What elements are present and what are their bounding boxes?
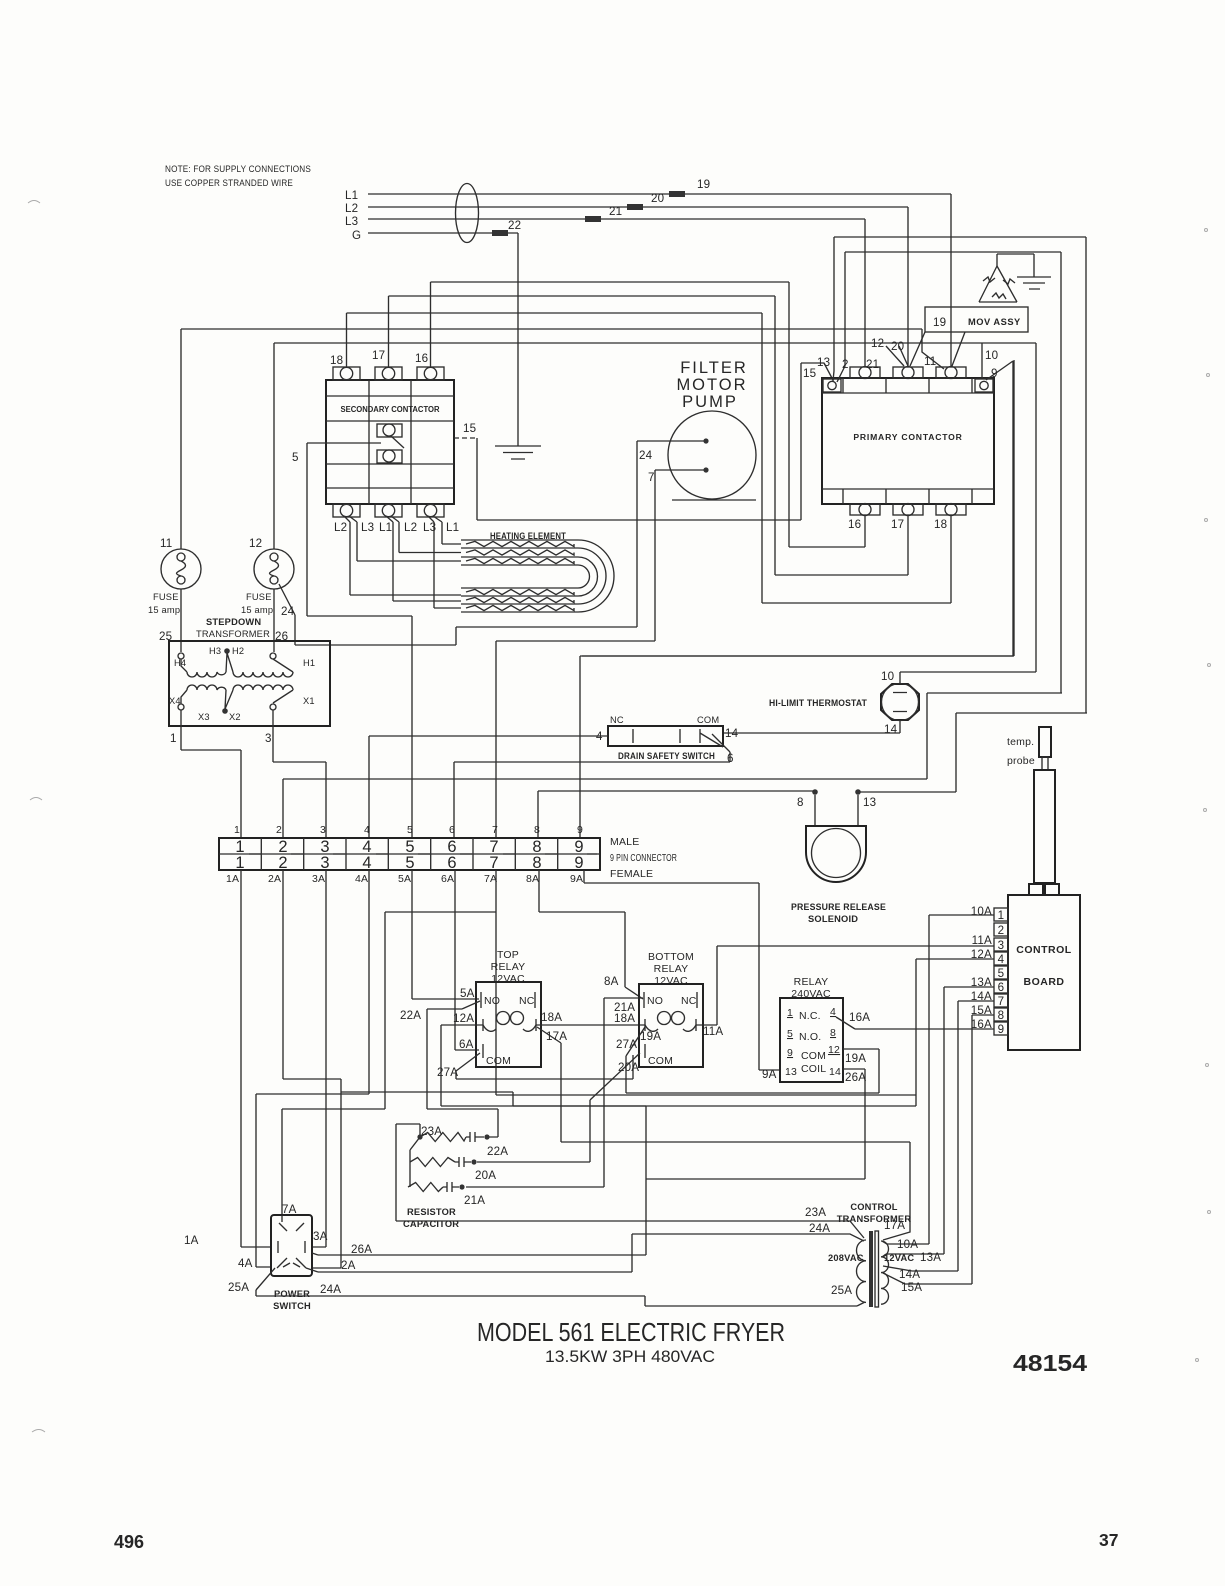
svg-text:24A: 24A (320, 1283, 341, 1296)
sc bottom terminal 1 (333, 504, 360, 517)
scan marks (28, 201, 1211, 1433)
wire 2A jog (513, 1106, 646, 1179)
terminal 16 of secondary contactor (415, 352, 444, 380)
svg-text:6: 6 (998, 981, 1005, 994)
svg-text:N.C.: N.C. (799, 1010, 821, 1022)
pc top terminal 19 (936, 367, 966, 379)
svg-text:19: 19 (933, 316, 946, 329)
svg-text:FEMALE: FEMALE (610, 868, 653, 880)
svg-text:G: G (352, 229, 361, 242)
svg-text:13: 13 (817, 356, 830, 369)
svg-text:MALE: MALE (610, 836, 639, 848)
wire sc t1 right lead to element (349, 516, 461, 561)
board pin 1 (994, 908, 1008, 922)
wire 17A (537, 1027, 910, 1240)
wire 27A top (437, 1053, 633, 1079)
svg-text:4: 4 (830, 1006, 836, 1018)
pc corner terminal left (823, 379, 841, 392)
svg-text:X2: X2 (229, 712, 241, 722)
svg-text:8: 8 (830, 1027, 836, 1039)
svg-text:20A: 20A (475, 1169, 496, 1182)
svg-text:22A: 22A (487, 1145, 508, 1158)
svg-text:10A: 10A (971, 905, 992, 918)
wire fuse 11 to transformer H4 (180, 329, 182, 652)
secondary contactor coil upper (377, 424, 404, 448)
svg-text:11A: 11A (972, 934, 992, 947)
svg-text:21: 21 (609, 205, 622, 218)
wire sc t2 right lead to element (391, 516, 461, 553)
svg-text:19A: 19A (845, 1052, 866, 1065)
svg-text:L1: L1 (345, 189, 358, 202)
svg-text:2: 2 (998, 924, 1005, 937)
wire pc bottom 17 to rail B (775, 515, 908, 575)
wire 7 from pump (496, 470, 704, 838)
wire 19A relay12 (626, 1049, 879, 1093)
wire thermostat 14 to drain com (723, 720, 900, 733)
wire 2 (837, 252, 1061, 693)
svg-text:19A: 19A (640, 1030, 661, 1043)
wire 21A (466, 998, 643, 1187)
svg-text:L3: L3 (345, 215, 358, 228)
svg-text:NOTE: FOR SUPPLY CONNECTIONS: NOTE: FOR SUPPLY CONNECTIONS (165, 164, 311, 174)
svg-text:HI-LIMIT THERMOSTAT: HI-LIMIT THERMOSTAT (769, 698, 867, 708)
svg-text:3A: 3A (313, 1230, 328, 1243)
wire sc t3 left lead to element (428, 516, 461, 608)
svg-text:10A: 10A (897, 1238, 918, 1251)
svg-text:7A: 7A (484, 873, 497, 885)
wire 14A (912, 1001, 994, 1271)
svg-text:4: 4 (364, 824, 370, 836)
wire 24A (318, 1234, 864, 1272)
svg-text:12A: 12A (453, 1012, 474, 1025)
svg-text:N.O.: N.O. (799, 1031, 821, 1043)
svg-text:1: 1 (170, 732, 177, 745)
heating element (461, 531, 614, 612)
splice 20 (627, 204, 643, 210)
svg-text:RESISTOR: RESISTOR (407, 1207, 456, 1217)
board pin 9 (994, 1022, 1008, 1036)
svg-text:14A: 14A (899, 1268, 920, 1281)
svg-text:21A: 21A (464, 1194, 485, 1207)
svg-text:NC: NC (681, 995, 697, 1007)
svg-text:11: 11 (924, 355, 936, 368)
svg-text:20: 20 (651, 192, 664, 205)
svg-text:L2: L2 (345, 202, 358, 215)
svg-text:27A: 27A (437, 1066, 458, 1079)
svg-text:L2: L2 (404, 521, 417, 534)
svg-text:9: 9 (991, 367, 998, 380)
svg-text:16A: 16A (849, 1011, 870, 1024)
pc top terminal 21 (850, 367, 880, 379)
wire 12A long (441, 959, 994, 1106)
mov assy (910, 254, 1051, 366)
wire 11A (696, 946, 994, 1038)
pc bottom terminal 18 (934, 504, 966, 532)
svg-text:5: 5 (407, 824, 413, 836)
svg-text:9: 9 (998, 1023, 1005, 1036)
wire sc t1 left lead to element (344, 516, 461, 595)
svg-text:COM: COM (486, 1055, 511, 1067)
cable bundle ellipse (456, 184, 479, 243)
pc corner terminal right (975, 379, 993, 392)
svg-text:1: 1 (787, 1007, 793, 1019)
wire 3A (312, 870, 326, 1247)
svg-text:3: 3 (320, 854, 329, 872)
svg-text:2: 2 (278, 854, 287, 872)
svg-text:DRAIN SAFETY SWITCH: DRAIN SAFETY SWITCH (618, 751, 715, 761)
svg-text:BOARD: BOARD (1024, 976, 1065, 988)
secondary contactor box (326, 380, 454, 504)
board pin 2 (994, 923, 1008, 937)
svg-text:6: 6 (449, 824, 455, 836)
svg-text:USE COPPER STRANDED WIRE: USE COPPER STRANDED WIRE (165, 178, 293, 188)
svg-text:4: 4 (998, 953, 1005, 966)
secondary contactor coil lower (377, 450, 402, 463)
wire 16A (836, 1011, 994, 1029)
wire 6A (455, 870, 479, 1050)
board pin 3 (994, 938, 1008, 952)
terminal 18 of secondary contactor (330, 354, 360, 380)
svg-text:TRANSFORMER: TRANSFORMER (196, 629, 270, 639)
top relay box (476, 949, 541, 1067)
svg-text:SOLENOID: SOLENOID (808, 914, 858, 924)
wire 1A (241, 870, 271, 1247)
svg-text:208VAC: 208VAC (828, 1253, 864, 1263)
svg-text:48154: 48154 (1013, 1350, 1087, 1376)
wire 4A (256, 870, 369, 1267)
svg-text:17: 17 (891, 518, 904, 531)
svg-text:3: 3 (265, 732, 272, 745)
svg-text:11: 11 (160, 537, 172, 550)
svg-text:6: 6 (447, 854, 456, 872)
svg-text:14: 14 (829, 1066, 841, 1078)
wire L3 to terminal 21 (368, 219, 865, 367)
svg-text:17A: 17A (884, 1219, 905, 1232)
svg-text:PUMP: PUMP (682, 393, 738, 411)
svg-text:24: 24 (639, 449, 653, 462)
svg-text:6A: 6A (459, 1038, 474, 1051)
filter motor pump (639, 359, 756, 500)
svg-text:5: 5 (787, 1028, 793, 1040)
svg-text:4: 4 (362, 854, 371, 872)
svg-text:L2: L2 (334, 521, 347, 534)
svg-text:L1: L1 (379, 521, 392, 534)
svg-text:26A: 26A (845, 1071, 866, 1084)
board pin 8 (994, 1008, 1008, 1022)
stepdown transformer (159, 617, 330, 745)
svg-text:STEPDOWN: STEPDOWN (206, 617, 261, 627)
svg-text:9: 9 (574, 854, 583, 872)
wire 11 from fuse 11 (181, 329, 944, 369)
svg-text:20A: 20A (618, 1061, 639, 1074)
wire 2A branch (341, 1092, 513, 1106)
board pin 7 (994, 994, 1008, 1008)
wire bus y296 to rail B (389, 296, 776, 575)
svg-text:8: 8 (534, 824, 540, 836)
svg-text:8A: 8A (526, 873, 539, 885)
control transformer (805, 1202, 941, 1307)
svg-text:16: 16 (848, 518, 861, 531)
svg-text:8: 8 (797, 796, 804, 809)
svg-text:1A: 1A (226, 873, 239, 885)
svg-text:H2: H2 (232, 646, 244, 656)
hi-limit thermostat (769, 670, 919, 736)
svg-text:PRESSURE RELEASE: PRESSURE RELEASE (791, 902, 886, 912)
svg-text:27A: 27A (616, 1038, 637, 1051)
svg-text:12A: 12A (971, 948, 992, 961)
control board (1008, 884, 1080, 1050)
svg-text:26A: 26A (351, 1243, 372, 1256)
board pin 4 (994, 952, 1008, 966)
svg-text:12VAC: 12VAC (491, 973, 525, 985)
wire 15A (905, 1015, 994, 1284)
svg-text:11A: 11A (703, 1025, 723, 1038)
svg-text:H3: H3 (209, 646, 221, 656)
svg-text:9: 9 (577, 824, 583, 836)
svg-text:SWITCH: SWITCH (273, 1301, 311, 1311)
svg-text:POWER: POWER (274, 1289, 310, 1299)
svg-text:12: 12 (249, 537, 262, 550)
svg-text:15: 15 (803, 367, 816, 380)
svg-text:13.5KW 3PH 480VAC: 13.5KW 3PH 480VAC (545, 1347, 715, 1366)
svg-text:7: 7 (492, 824, 498, 836)
wire solenoid 8 (538, 791, 813, 838)
svg-text:23A: 23A (805, 1206, 826, 1219)
svg-text:12VAC: 12VAC (654, 975, 688, 987)
svg-text:12: 12 (871, 337, 884, 350)
wire 12A to top relay coil (441, 1024, 483, 1026)
wire 4 drain nc to pin 4 (369, 736, 608, 838)
svg-text:19: 19 (697, 178, 710, 191)
svg-text:24: 24 (281, 605, 295, 618)
svg-text:22A: 22A (400, 1009, 421, 1022)
svg-text:18: 18 (934, 518, 947, 531)
svg-text:25A: 25A (228, 1281, 249, 1294)
svg-text:4A: 4A (355, 873, 368, 885)
svg-text:RELAY: RELAY (794, 976, 829, 988)
wire 19A diag (626, 1027, 661, 1093)
sc bottom terminal 3 (417, 504, 444, 517)
svg-text:1: 1 (234, 824, 240, 836)
svg-text:MOTOR: MOTOR (676, 376, 747, 394)
svg-text:CONTROL: CONTROL (1016, 944, 1071, 956)
svg-text:COIL: COIL (801, 1063, 826, 1075)
pc bottom terminal 16 (848, 504, 880, 532)
svg-text:13A: 13A (920, 1251, 941, 1264)
wire bus y313 to rail C (347, 313, 763, 603)
wire G (368, 233, 518, 446)
board pin 6 (994, 980, 1008, 994)
svg-text:15A: 15A (901, 1281, 922, 1294)
svg-text:6A: 6A (441, 873, 454, 885)
svg-text:CONTROL: CONTROL (850, 1202, 897, 1212)
board pin 5 (994, 966, 1008, 980)
svg-text:3A: 3A (312, 873, 325, 885)
wire 2A (283, 870, 341, 1268)
wire 5A (412, 870, 479, 999)
svg-text:18A: 18A (541, 1011, 562, 1024)
svg-text:4A: 4A (238, 1257, 253, 1270)
svg-text:8: 8 (532, 854, 541, 872)
sc bottom terminal 2 (375, 504, 402, 517)
wire 7A (282, 870, 916, 1215)
svg-text:15: 15 (463, 422, 476, 435)
svg-text:FILTER: FILTER (680, 359, 748, 377)
temp probe (1007, 727, 1055, 883)
svg-text:SECONDARY CONTACTOR: SECONDARY CONTACTOR (341, 404, 441, 414)
fuse 12 (241, 537, 294, 615)
svg-text:21: 21 (866, 358, 879, 371)
svg-text:7: 7 (648, 471, 655, 484)
wire 10 (900, 343, 1036, 684)
svg-text:17: 17 (372, 349, 385, 362)
wire transformer terminal 3 to pin 3 (273, 710, 326, 838)
svg-text:COM: COM (697, 715, 719, 725)
svg-text:20: 20 (891, 340, 904, 353)
svg-text:3: 3 (998, 939, 1005, 952)
svg-text:temp.: temp. (1007, 736, 1034, 748)
svg-text:L3: L3 (361, 521, 374, 534)
relay 240vac (780, 976, 843, 1082)
terminal 17 of secondary contactor (372, 349, 402, 380)
wire solenoid 13 (858, 713, 1087, 809)
wire 18A between relays (536, 1011, 645, 1025)
wire 22A (400, 1001, 498, 1137)
svg-text:1: 1 (235, 854, 244, 872)
wire 20A (477, 1053, 640, 1162)
svg-text:14: 14 (725, 727, 739, 740)
svg-text:5A: 5A (460, 987, 475, 1000)
wire 12 from fuse 12 (274, 343, 982, 366)
9 pin connector (219, 824, 677, 885)
svg-text:PRIMARY CONTACTOR: PRIMARY CONTACTOR (853, 432, 962, 442)
svg-text:COM: COM (801, 1050, 826, 1062)
wire transformer terminal 1 to pin 1 (181, 710, 241, 838)
svg-text:6: 6 (727, 752, 734, 765)
svg-text:10: 10 (985, 349, 998, 362)
svg-text:17A: 17A (546, 1030, 567, 1043)
wire 8A (539, 870, 643, 999)
svg-text:9 PIN CONNECTOR: 9 PIN CONNECTOR (610, 852, 677, 864)
svg-text:15 amp: 15 amp (241, 605, 273, 615)
svg-text:TOP: TOP (497, 949, 519, 961)
svg-text:25A: 25A (831, 1284, 852, 1297)
svg-text:5: 5 (405, 854, 414, 872)
svg-text:21A: 21A (614, 1001, 635, 1014)
svg-text:9: 9 (787, 1047, 793, 1059)
fuse 11 (148, 537, 201, 615)
wire 5 (292, 443, 412, 838)
splice 21 (585, 216, 601, 222)
splice 22 (492, 230, 508, 236)
svg-text:NC: NC (519, 995, 535, 1007)
svg-text:8A: 8A (604, 975, 619, 988)
wire 26A relay14 (318, 1069, 866, 1255)
svg-text:FUSE: FUSE (153, 592, 179, 602)
wire 13 (833, 237, 1086, 713)
svg-text:2A: 2A (268, 873, 281, 885)
pc top terminal 20 (893, 367, 923, 379)
svg-text:37: 37 (1099, 1530, 1118, 1550)
svg-text:12VAC: 12VAC (884, 1253, 914, 1263)
svg-text:2A: 2A (341, 1259, 356, 1272)
svg-text:BOTTOM: BOTTOM (648, 951, 694, 963)
svg-text:13: 13 (863, 796, 876, 809)
wire sc terminal 18 riser (346, 313, 348, 367)
wire sc terminal 17 riser (388, 296, 390, 367)
ground for G wire (495, 446, 541, 459)
svg-text:14: 14 (884, 723, 898, 736)
wire pin9 riser right (582, 360, 1014, 656)
svg-text:16: 16 (415, 352, 428, 365)
svg-text:24A: 24A (809, 1222, 830, 1235)
svg-text:L1: L1 (446, 521, 459, 534)
svg-text:496: 496 (114, 1532, 144, 1552)
svg-text:NO: NO (647, 995, 663, 1007)
svg-text:9A: 9A (570, 873, 583, 885)
svg-text:H1: H1 (303, 658, 315, 668)
wire 15 (454, 363, 833, 520)
pressure release solenoid (791, 789, 886, 924)
svg-text:probe: probe (1007, 755, 1035, 767)
svg-text:13: 13 (785, 1066, 797, 1078)
wire 6 drain to pin 6 (454, 762, 730, 838)
svg-text:NC: NC (610, 715, 624, 725)
wire 10A (887, 915, 994, 1244)
pc bottom terminal 17 (891, 504, 923, 532)
svg-text:18: 18 (330, 354, 343, 367)
wire fuse 12 to transformer H1 (273, 343, 275, 652)
svg-text:10: 10 (881, 670, 894, 683)
svg-text:RELAY: RELAY (654, 963, 689, 975)
wire bus y282 to rail A (431, 282, 790, 547)
svg-text:5: 5 (292, 451, 299, 464)
svg-text:X3: X3 (198, 712, 210, 722)
wire 25A (256, 1290, 857, 1306)
wire pin2 long (283, 693, 1062, 838)
svg-text:7: 7 (489, 854, 498, 872)
svg-text:2: 2 (842, 358, 849, 371)
svg-text:3: 3 (320, 824, 326, 836)
svg-text:X1: X1 (303, 696, 315, 706)
wire sc t2 left lead to element (386, 516, 461, 601)
wire 23A frame to control transformer (396, 1124, 864, 1238)
svg-text:RELAY: RELAY (491, 961, 526, 973)
resistor capacitor network (403, 1125, 508, 1229)
wire pc bottom 18 to rail C (762, 515, 951, 603)
wire 9 (580, 361, 1013, 838)
bottom relay box (639, 951, 703, 1067)
wire sc t3 right lead to element (433, 516, 461, 544)
svg-text:7: 7 (998, 995, 1005, 1008)
svg-text:5A: 5A (398, 873, 411, 885)
svg-text:2: 2 (276, 824, 282, 836)
wire L2 to terminal 20 (368, 207, 908, 367)
wire 13A (886, 987, 994, 1254)
svg-text:COM: COM (648, 1055, 673, 1067)
primary contactor box (822, 378, 994, 504)
svg-text:MOV ASSY: MOV ASSY (968, 317, 1021, 327)
drain safety switch (596, 715, 739, 765)
wire L1 to terminal 19 (368, 194, 951, 367)
svg-text:22: 22 (508, 219, 521, 232)
wire pc bottom 16 to rail A (789, 515, 865, 547)
svg-text:12: 12 (828, 1044, 840, 1056)
svg-text:MODEL 561 ELECTRIC FRYER: MODEL 561 ELECTRIC FRYER (477, 1317, 785, 1347)
svg-text:1: 1 (998, 909, 1005, 922)
power switch (256, 1215, 318, 1311)
splice 19 (669, 191, 685, 197)
